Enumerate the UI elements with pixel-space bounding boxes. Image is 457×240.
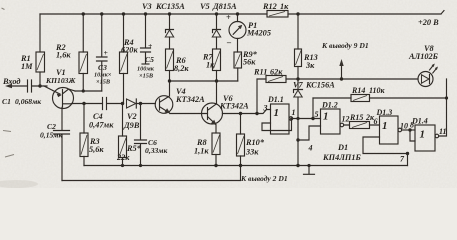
transistor V1 (45, 68, 76, 109)
node junction R10 rail (239, 164, 242, 167)
node junction V7 crossing (296, 117, 299, 120)
node pin9 terminal (321, 41, 369, 79)
node junction bottom rail left (121, 164, 124, 167)
wire bottom common rail (84, 165, 408, 167)
wire drain signal (72, 103, 103, 105)
wire top supply rail (40, 11, 444, 53)
node rail junction C3 (100, 12, 103, 15)
resistor R3 (80, 104, 104, 166)
resistor R14 (313, 86, 447, 119)
node rail junction R13 (296, 12, 299, 15)
node junction R5 (121, 102, 124, 105)
resistor R1 (20, 52, 45, 86)
gate D1.4 (411, 117, 447, 152)
node junction V7 rail (296, 164, 299, 167)
resistor R9 (234, 50, 258, 81)
zener V3 (142, 2, 185, 49)
node rail junction C5 (144, 12, 147, 15)
node drain junction R3 (82, 102, 85, 105)
gate D1.1 (263, 95, 296, 134)
node rail junction V3 (168, 12, 171, 15)
node gate junction (38, 84, 41, 87)
node junction R10 top (239, 112, 242, 115)
node junction collectors (168, 79, 171, 82)
wire emitter to base (170, 113, 208, 115)
transistor V6 (202, 81, 250, 133)
wire lower return rail (62, 166, 241, 181)
wire D1.4 second input (410, 130, 415, 141)
node input terminal (2, 77, 28, 88)
node rail junction R2 (82, 12, 85, 15)
wire gate (44, 86, 53, 91)
resistor R6 (166, 49, 190, 81)
capacitor C3 (94, 14, 112, 91)
wire D1.1 output (293, 118, 321, 120)
capacitor C2 (40, 107, 70, 180)
ground (304, 164, 315, 174)
zener V5 (200, 2, 237, 49)
node junction R14 right (445, 96, 448, 99)
node rail junction V5 (215, 12, 218, 15)
resistor R12 (262, 2, 289, 17)
wire source node (75, 90, 102, 92)
transistor V4 (155, 81, 205, 113)
wire collector node (170, 80, 238, 82)
node junction V7 step (296, 138, 299, 141)
capacitor C1 (2, 80, 47, 106)
diode V2 (123, 99, 155, 130)
resistor R13 (295, 14, 318, 79)
wire internal supply 5.6V (257, 79, 418, 114)
wire D1.1 feedback loop (262, 120, 292, 130)
capacitor C6 (135, 104, 168, 166)
resistor R5 (116, 104, 142, 166)
IC D1 label (322, 143, 362, 162)
resistor R10 (237, 114, 265, 166)
gate D1.2 (315, 101, 350, 135)
LED V8 (408, 44, 439, 87)
capacitor C5 (137, 14, 155, 80)
resistor R11 (253, 68, 286, 83)
wire emitter pickup (222, 110, 270, 114)
node junction C6 (139, 102, 142, 105)
node junction R14 tap (311, 117, 314, 120)
smudge marks (2, 8, 15, 157)
resistor R7 (202, 49, 221, 81)
zener V7 (293, 79, 335, 166)
gate D1.3 (374, 108, 409, 144)
meter P1 (226, 13, 271, 52)
wire D1.4 output (439, 79, 447, 136)
resistor R15 (344, 113, 380, 129)
node rail junction R4 (122, 12, 125, 15)
wire D1.3 output (402, 129, 415, 131)
resistor R8 (194, 133, 220, 166)
wire D1.3 ground loop (363, 137, 408, 166)
capacitor C4 (89, 98, 123, 130)
resistor R2 (55, 14, 88, 91)
resistor R4 (120, 14, 139, 104)
node rail junction P1 (236, 12, 239, 15)
node junction R8 rail (214, 164, 217, 167)
wire D1.2 lower input (298, 126, 321, 140)
